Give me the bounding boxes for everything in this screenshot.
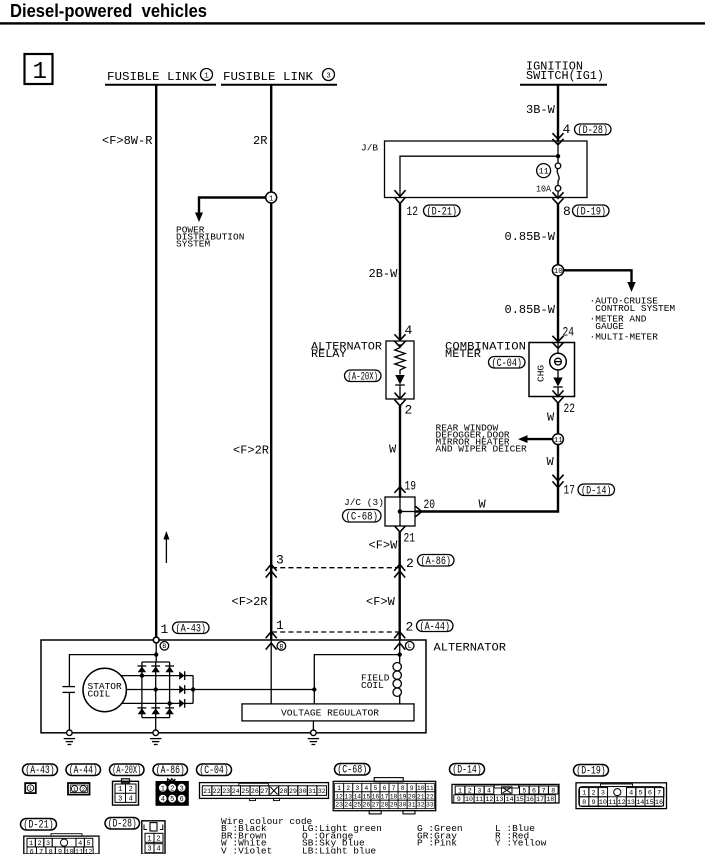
svg-text:10: 10 bbox=[599, 799, 607, 807]
svg-text:3: 3 bbox=[326, 72, 331, 80]
voltage regulator box bbox=[242, 704, 414, 721]
svg-text:(D-19): (D-19) bbox=[576, 766, 605, 778]
svg-text:26: 26 bbox=[251, 788, 259, 795]
rectifier diodes lower bbox=[138, 708, 175, 714]
wire: node 10 to combination meter, 0.85B-W bbox=[557, 276, 559, 343]
wire: fusible link 3 vertical bbox=[270, 85, 272, 640]
wire: trio output to regulator junction bbox=[193, 689, 314, 691]
svg-text:(A-86): (A-86) bbox=[156, 765, 185, 777]
connector D-14 pinout bbox=[452, 784, 559, 803]
svg-text:27: 27 bbox=[260, 788, 268, 795]
svg-text:2: 2 bbox=[170, 785, 174, 793]
alternator box bbox=[41, 640, 426, 733]
svg-text:(A-20X): (A-20X) bbox=[348, 372, 379, 384]
node 11 arrow to rear window defogger bbox=[527, 438, 553, 440]
svg-text:13: 13 bbox=[496, 796, 504, 803]
pin 22 chevrons + label bbox=[553, 391, 563, 397]
connector label (C-68) bbox=[335, 764, 371, 776]
svg-text:(C-04): (C-04) bbox=[199, 765, 228, 777]
svg-text:11: 11 bbox=[75, 849, 83, 854]
svg-text:6: 6 bbox=[180, 796, 184, 804]
J/B internal wire to left exit bbox=[400, 156, 558, 197]
svg-text:11: 11 bbox=[608, 799, 616, 807]
svg-text:32: 32 bbox=[417, 802, 425, 809]
pin 3 double chevrons + label bbox=[266, 564, 276, 570]
pin 2 double chevrons + label (A-86) bbox=[395, 564, 405, 570]
svg-text:22: 22 bbox=[426, 793, 434, 800]
svg-text:AND WIPER DEICER: AND WIPER DEICER bbox=[436, 444, 528, 455]
svg-text:5: 5 bbox=[374, 785, 378, 792]
svg-text:15: 15 bbox=[516, 796, 524, 803]
svg-text:3: 3 bbox=[118, 795, 122, 803]
svg-text:0.85B-W: 0.85B-W bbox=[505, 230, 556, 244]
wire: J/B to alternator relay 2B-W bbox=[399, 204, 401, 342]
pin 20 chevron + label bbox=[416, 507, 422, 516]
svg-text:21: 21 bbox=[203, 788, 211, 795]
svg-text:GAUGE: GAUGE bbox=[595, 321, 624, 332]
rectifier bridge frame bbox=[142, 661, 170, 663]
charge warning lamp CHG bbox=[557, 343, 559, 354]
svg-text:(A-43): (A-43) bbox=[176, 624, 207, 636]
pin 17 double chevrons + label (D-14) bbox=[553, 475, 563, 481]
trio diodes bbox=[179, 671, 185, 708]
connector label (A-44) bbox=[66, 764, 101, 776]
svg-text:(A-43): (A-43) bbox=[25, 765, 54, 777]
pin 19 chevron + label bbox=[395, 487, 405, 493]
ground (rectifier) bbox=[153, 730, 159, 736]
svg-text:3: 3 bbox=[147, 846, 151, 854]
svg-text:13: 13 bbox=[627, 799, 635, 807]
connector D-21 pinout bbox=[51, 834, 82, 836]
svg-text:18: 18 bbox=[546, 796, 554, 803]
svg-text:21: 21 bbox=[417, 793, 425, 800]
rectifier diodes upper bbox=[138, 666, 175, 672]
svg-text:<F>2R: <F>2R bbox=[232, 595, 268, 609]
phase line 1 bbox=[121, 675, 185, 677]
svg-text:CONTROL SYSTEM: CONTROL SYSTEM bbox=[595, 303, 675, 314]
svg-text:2: 2 bbox=[129, 786, 133, 794]
connector oval (C-04) bbox=[489, 357, 526, 369]
svg-text:2: 2 bbox=[405, 403, 413, 418]
svg-text:1: 1 bbox=[458, 787, 462, 794]
svg-text:19: 19 bbox=[399, 793, 407, 800]
svg-text:<F>8W-R: <F>8W-R bbox=[102, 134, 152, 148]
combination meter box bbox=[529, 343, 575, 397]
svg-text:CHG: CHG bbox=[536, 365, 547, 382]
svg-text:1: 1 bbox=[204, 72, 209, 80]
connector D-28 pinout bbox=[142, 821, 165, 854]
svg-text:8: 8 bbox=[401, 785, 405, 792]
relay coil resistor bbox=[395, 344, 405, 375]
svg-text:4: 4 bbox=[156, 846, 160, 854]
svg-text:10: 10 bbox=[65, 849, 73, 854]
svg-text:2B-W: 2B-W bbox=[369, 267, 399, 281]
svg-text:4: 4 bbox=[563, 122, 571, 137]
connector oval (C-68) bbox=[343, 510, 382, 523]
svg-text:6: 6 bbox=[383, 785, 387, 792]
svg-text:3: 3 bbox=[355, 785, 359, 792]
connector A-43 pinout bbox=[25, 783, 36, 793]
svg-text:26: 26 bbox=[363, 802, 371, 809]
svg-text:1: 1 bbox=[161, 622, 169, 637]
dashed connector line A-44 bbox=[272, 631, 400, 633]
svg-text:Y :Yellow: Y :Yellow bbox=[495, 837, 547, 848]
connector label (A-20X) bbox=[110, 764, 145, 776]
regulator to ground bbox=[312, 721, 314, 733]
svg-text:12: 12 bbox=[618, 799, 626, 807]
svg-text:28: 28 bbox=[381, 802, 389, 809]
svg-text:1: 1 bbox=[269, 195, 274, 203]
svg-text:30: 30 bbox=[299, 788, 307, 795]
svg-text:(D-19): (D-19) bbox=[576, 207, 607, 219]
svg-text:P :Pink: P :Pink bbox=[417, 837, 457, 848]
fuse 11 10A symbol bbox=[557, 141, 559, 163]
svg-text:J/C (3): J/C (3) bbox=[344, 497, 384, 508]
svg-text:12: 12 bbox=[485, 796, 493, 803]
svg-text:24: 24 bbox=[232, 788, 240, 795]
svg-text:0.85B-W: 0.85B-W bbox=[505, 303, 556, 317]
svg-text:<F>W: <F>W bbox=[366, 595, 396, 609]
connector label (C-04) bbox=[197, 764, 232, 776]
svg-text:12: 12 bbox=[84, 849, 92, 854]
svg-text:W: W bbox=[547, 455, 555, 469]
svg-text:15: 15 bbox=[646, 799, 654, 807]
svg-text:9: 9 bbox=[58, 849, 62, 854]
svg-text:(D-28): (D-28) bbox=[578, 125, 609, 137]
wire: meter pin 22 to node 11, W bbox=[557, 403, 559, 434]
svg-text:(D-28): (D-28) bbox=[108, 819, 137, 831]
node 1 (circled) on fusible link 3 wire bbox=[266, 192, 277, 203]
svg-text:7: 7 bbox=[542, 787, 546, 794]
phase line 3 bbox=[121, 702, 185, 704]
svg-text:15: 15 bbox=[363, 793, 371, 800]
node 10 (circled) bbox=[552, 265, 563, 276]
svg-text:4: 4 bbox=[364, 785, 368, 792]
svg-text:3B-W: 3B-W bbox=[526, 103, 556, 117]
svg-text:3: 3 bbox=[477, 787, 481, 794]
svg-text:SWITCH(IG1): SWITCH(IG1) bbox=[526, 70, 604, 83]
svg-text:7: 7 bbox=[392, 785, 396, 792]
svg-text:1: 1 bbox=[29, 785, 33, 792]
dashed connector line A-86 bbox=[272, 567, 400, 569]
svg-text:2: 2 bbox=[406, 620, 414, 635]
svg-text:1: 1 bbox=[147, 835, 151, 843]
svg-text:FUSIBLE LINK: FUSIBLE LINK bbox=[223, 70, 314, 84]
connector label (D-21) bbox=[21, 819, 57, 831]
svg-text:14: 14 bbox=[506, 796, 514, 803]
connector C-04 pinout bbox=[200, 783, 329, 799]
current direction arrow beside fusible link 1 wire bbox=[165, 539, 167, 563]
svg-text:16: 16 bbox=[655, 799, 663, 807]
terminal B (battery) open circle bbox=[153, 637, 159, 643]
connector C-68 pinout bbox=[374, 778, 403, 782]
svg-text:22: 22 bbox=[564, 401, 576, 416]
wire: fusible link 1 vertical bbox=[155, 85, 157, 640]
svg-text:23: 23 bbox=[335, 802, 343, 809]
svg-text:2: 2 bbox=[346, 785, 350, 792]
svg-text:Diesel-powered vehicles: Diesel-powered vehicles bbox=[10, 1, 207, 21]
pin 4 chevron into J/B bbox=[553, 134, 563, 139]
ground (capacitor) bbox=[67, 730, 73, 736]
svg-text:32: 32 bbox=[318, 788, 326, 795]
svg-text:14: 14 bbox=[353, 793, 361, 800]
pin 21 chevrons + label bbox=[395, 526, 405, 532]
svg-text:24: 24 bbox=[563, 325, 575, 340]
terminal symbol B1 bbox=[160, 642, 169, 651]
relay diode bbox=[395, 375, 404, 385]
svg-text:16: 16 bbox=[526, 796, 534, 803]
internal wire from B terminal to rectifier bbox=[155, 643, 157, 662]
svg-text:L: L bbox=[408, 643, 412, 650]
svg-text:17: 17 bbox=[536, 796, 544, 803]
svg-text:5: 5 bbox=[170, 796, 174, 804]
trio output bus bbox=[185, 675, 193, 677]
svg-text:13: 13 bbox=[344, 793, 352, 800]
stator coil bbox=[83, 668, 126, 711]
svg-text:VOLTAGE REGULATOR: VOLTAGE REGULATOR bbox=[281, 708, 379, 719]
connector label (A-43) bbox=[23, 764, 58, 776]
terminal symbol B2 bbox=[277, 642, 286, 651]
connector label (A-86) bbox=[153, 764, 188, 776]
svg-text:9: 9 bbox=[591, 799, 595, 807]
svg-text:B: B bbox=[162, 643, 166, 650]
internal wire from L terminal bbox=[399, 640, 401, 663]
connector oval (A-20X) bbox=[345, 370, 382, 382]
svg-text:10: 10 bbox=[465, 796, 473, 803]
svg-text:METER: METER bbox=[445, 349, 481, 361]
svg-text:W: W bbox=[389, 443, 397, 457]
svg-text:8: 8 bbox=[563, 204, 571, 219]
svg-text:10A: 10A bbox=[536, 184, 551, 195]
svg-text:W: W bbox=[479, 498, 487, 512]
connector label (D-28) bbox=[105, 818, 140, 830]
svg-text:11: 11 bbox=[554, 437, 564, 445]
figure number box 1 bbox=[25, 54, 53, 84]
svg-text:<F>2R: <F>2R bbox=[233, 444, 269, 458]
J/B left exit chevrons pin 12 bbox=[395, 191, 405, 197]
fusible link 3 label bbox=[221, 69, 337, 85]
pin 1 chevrons + label bbox=[266, 632, 276, 638]
svg-text:2: 2 bbox=[156, 835, 160, 843]
connector A-20X pinout bbox=[122, 779, 130, 783]
connector label (D-14) bbox=[450, 764, 485, 776]
svg-text:6: 6 bbox=[532, 787, 536, 794]
svg-text:9: 9 bbox=[457, 796, 461, 803]
svg-text:6: 6 bbox=[30, 849, 34, 854]
capacitor C branch bbox=[69, 655, 156, 686]
svg-text:COIL: COIL bbox=[88, 689, 111, 700]
svg-text:(D-21): (D-21) bbox=[23, 820, 53, 832]
rectifier center to ground bbox=[155, 718, 157, 733]
svg-text:14: 14 bbox=[636, 799, 644, 807]
svg-text:10: 10 bbox=[554, 268, 564, 276]
svg-text:LB:Light blue: LB:Light blue bbox=[302, 846, 376, 854]
svg-text:1: 1 bbox=[118, 786, 122, 794]
svg-text:(D-14): (D-14) bbox=[581, 486, 612, 498]
svg-text:(D-14): (D-14) bbox=[452, 765, 481, 777]
svg-text:30: 30 bbox=[399, 802, 407, 809]
svg-text:19: 19 bbox=[405, 479, 417, 494]
svg-text:27: 27 bbox=[372, 802, 380, 809]
svg-text:4: 4 bbox=[487, 787, 491, 794]
svg-text:1: 1 bbox=[276, 618, 284, 633]
svg-text:(C-04): (C-04) bbox=[492, 358, 523, 370]
svg-text:(D-21): (D-21) bbox=[427, 207, 458, 219]
pin 24 chevron + label bbox=[553, 336, 563, 341]
svg-text:21: 21 bbox=[404, 531, 416, 546]
svg-text:18: 18 bbox=[390, 793, 398, 800]
wire: branch to power distribution system bbox=[199, 198, 271, 214]
svg-text:1: 1 bbox=[161, 785, 165, 793]
svg-text:11: 11 bbox=[426, 785, 434, 792]
wire: J/C(3) pin 20 to combination meter, W bbox=[415, 445, 558, 512]
connector label (D-19) bbox=[574, 765, 609, 777]
svg-text:(A-20X): (A-20X) bbox=[112, 765, 141, 777]
svg-text:B: B bbox=[279, 643, 283, 650]
svg-text:23: 23 bbox=[222, 788, 230, 795]
svg-text:17: 17 bbox=[381, 793, 389, 800]
svg-text:(A-44): (A-44) bbox=[420, 622, 451, 634]
svg-text:(A-86): (A-86) bbox=[421, 556, 452, 568]
svg-text:4: 4 bbox=[161, 796, 165, 804]
svg-text:5: 5 bbox=[522, 787, 526, 794]
svg-text:25: 25 bbox=[241, 788, 249, 795]
svg-text:25: 25 bbox=[353, 802, 361, 809]
svg-text:8: 8 bbox=[551, 787, 555, 794]
svg-text:16: 16 bbox=[372, 793, 380, 800]
svg-text:22: 22 bbox=[213, 788, 221, 795]
svg-text:24: 24 bbox=[344, 802, 352, 809]
wire: relay to J/C(3), W bbox=[399, 406, 401, 497]
svg-text:8: 8 bbox=[582, 799, 586, 807]
svg-text:29: 29 bbox=[390, 802, 398, 809]
svg-text:ALTERNATOR: ALTERNATOR bbox=[434, 643, 507, 655]
svg-text:COIL: COIL bbox=[361, 680, 384, 691]
svg-text:4: 4 bbox=[129, 795, 133, 803]
connector A-44 pinout bbox=[68, 783, 90, 795]
node 10 branch wire to auto-cruise etc bbox=[563, 270, 632, 282]
internal wire from R terminal to regulator bbox=[270, 640, 272, 704]
svg-text:1: 1 bbox=[73, 786, 77, 793]
svg-text:·MULTI-METER: ·MULTI-METER bbox=[590, 332, 659, 343]
pin 4 chevron + label bbox=[395, 335, 405, 340]
svg-text:W: W bbox=[547, 411, 555, 425]
svg-text:3: 3 bbox=[276, 553, 284, 568]
svg-text:3: 3 bbox=[180, 785, 184, 793]
svg-text:12: 12 bbox=[407, 204, 419, 219]
svg-text:2: 2 bbox=[468, 787, 472, 794]
J/C(3) box bbox=[385, 497, 415, 526]
phase line 2 bbox=[126, 689, 184, 691]
wire: ignition switch drop bbox=[557, 85, 559, 141]
svg-text:J/B: J/B bbox=[361, 143, 378, 154]
ignition switch (IG1) label bbox=[520, 61, 607, 85]
svg-text:SYSTEM: SYSTEM bbox=[176, 239, 211, 250]
pin 2 chevrons + label (A-44) bbox=[395, 632, 405, 638]
svg-text:(C-68): (C-68) bbox=[346, 512, 379, 524]
svg-text:29: 29 bbox=[289, 788, 297, 795]
title underline rule bbox=[0, 22, 705, 24]
svg-text:8: 8 bbox=[49, 849, 53, 854]
wire: J/C(3) to alternator L, (F)W bbox=[399, 532, 401, 640]
pin 2 chevrons + label bbox=[395, 393, 405, 399]
svg-text:28: 28 bbox=[280, 788, 288, 795]
svg-text:2R: 2R bbox=[253, 134, 267, 148]
connector D-19 pinout bbox=[601, 784, 633, 787]
svg-text:2: 2 bbox=[406, 556, 414, 571]
svg-text:4: 4 bbox=[405, 323, 413, 338]
svg-text:9: 9 bbox=[410, 785, 414, 792]
svg-text:7: 7 bbox=[39, 849, 43, 854]
J/B right exit chevrons pin 8 bbox=[553, 193, 563, 198]
svg-text:1: 1 bbox=[33, 59, 47, 86]
node 11 (circled) bbox=[553, 434, 564, 445]
svg-text:12: 12 bbox=[335, 793, 343, 800]
wire: J/B to node 10, 0.85B-W bbox=[557, 204, 559, 266]
svg-text:2: 2 bbox=[82, 786, 86, 793]
svg-text:V :Violet: V :Violet bbox=[221, 846, 272, 854]
svg-text:31: 31 bbox=[408, 802, 416, 809]
svg-text:20: 20 bbox=[408, 793, 416, 800]
svg-text:(A-44): (A-44) bbox=[69, 765, 98, 777]
fusible link 1 label bbox=[105, 69, 216, 85]
svg-text:(C-68): (C-68) bbox=[337, 765, 367, 777]
svg-text:20: 20 bbox=[424, 497, 436, 512]
svg-text:11: 11 bbox=[539, 167, 549, 177]
svg-text:17: 17 bbox=[564, 483, 576, 498]
svg-text:FUSIBLE LINK: FUSIBLE LINK bbox=[107, 70, 198, 84]
svg-text:1: 1 bbox=[337, 785, 341, 792]
alternator relay U: box bbox=[386, 341, 414, 399]
svg-text:RELAY: RELAY bbox=[311, 349, 347, 361]
connector A-86 pinout bbox=[167, 779, 175, 782]
svg-text:33: 33 bbox=[426, 802, 434, 809]
meter diode bbox=[557, 370, 559, 378]
terminal symbol L bbox=[405, 642, 414, 651]
svg-text:31: 31 bbox=[308, 788, 316, 795]
svg-text:<F>W: <F>W bbox=[369, 539, 399, 553]
svg-text:11: 11 bbox=[475, 796, 483, 803]
svg-text:10: 10 bbox=[417, 785, 425, 792]
